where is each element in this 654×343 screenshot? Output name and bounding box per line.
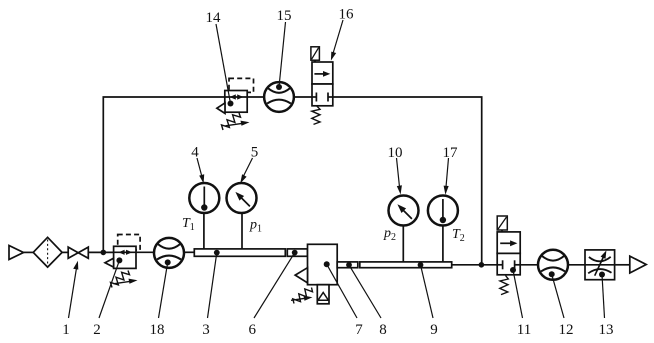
filter <box>33 237 62 267</box>
leader to 7 <box>327 264 357 318</box>
valve 16 actuator <box>311 47 320 60</box>
valve 11 open-position arrow <box>500 242 514 244</box>
valve 11 node dot <box>510 267 516 273</box>
wire (left riser) <box>103 97 225 252</box>
throttle valve 13 adjust arrow <box>595 257 604 276</box>
svg-text:17: 17 <box>443 145 459 161</box>
svg-text:8: 8 <box>379 322 387 338</box>
leader to 3 <box>208 253 217 318</box>
svg-text:T1: T1 <box>182 216 195 233</box>
wire <box>62 251 68 253</box>
svg-text:5: 5 <box>251 145 259 161</box>
regulator R14 flow arrows <box>225 96 247 98</box>
pipe section 9 <box>360 262 452 268</box>
valve 16 body <box>312 62 333 84</box>
flow meter 12 <box>538 250 568 280</box>
regulator R2 pilot dashed box <box>118 235 140 251</box>
valve 16 open-position arrow <box>314 73 327 75</box>
leader to 8 <box>349 265 381 318</box>
leader to 9 <box>421 265 434 318</box>
wire <box>24 251 34 253</box>
valve 11 actuator <box>497 216 507 230</box>
svg-text:p2: p2 <box>383 226 396 243</box>
svg-text:12: 12 <box>559 322 574 338</box>
regulator R2 spring <box>111 271 130 288</box>
valve 11 body <box>497 232 520 254</box>
regulator R2 flow arrows <box>114 251 136 253</box>
svg-text:16: 16 <box>339 7 355 23</box>
test valve 7 body <box>308 244 338 284</box>
test valve 7 spring <box>293 288 313 304</box>
throttle valve 13 through line <box>585 264 615 266</box>
leader to 15 <box>279 22 286 87</box>
pressure gauge 10 (p2) <box>389 196 419 226</box>
svg-text:6: 6 <box>249 322 257 338</box>
svg-text:11: 11 <box>517 322 531 338</box>
wire <box>136 251 154 253</box>
wire <box>184 251 194 253</box>
svg-text:15: 15 <box>277 8 292 24</box>
leader to 14 <box>216 24 231 104</box>
leader to 11 <box>513 270 523 318</box>
thermometer gauge 4 (T1) <box>189 183 219 213</box>
svg-text:9: 9 <box>430 322 438 338</box>
regulator R14 adjust arrow <box>226 123 243 125</box>
throttle valve 13 node dot <box>599 272 605 278</box>
throttle valve 13 body <box>585 250 615 280</box>
regulator R14 body <box>225 91 247 113</box>
svg-text:18: 18 <box>150 322 165 338</box>
leader to 13 <box>602 275 605 319</box>
flow meter 15 <box>264 82 294 112</box>
regulator R14 pilot dashed box <box>229 78 254 92</box>
air inlet source <box>9 246 24 260</box>
svg-text:10: 10 <box>388 145 403 161</box>
leader to 18 <box>159 262 168 318</box>
valve 16 spring <box>312 106 320 124</box>
gauge 10 stem <box>402 226 404 262</box>
wire <box>520 264 538 266</box>
junction node <box>479 262 485 268</box>
leader to 17 <box>446 158 449 187</box>
svg-text:1: 1 <box>62 322 70 338</box>
regulator R2 adjust arrow <box>114 281 131 283</box>
test valve 7 relief triangle <box>295 268 307 283</box>
leader to 1 <box>69 20 605 318</box>
regulator R2 body <box>114 246 136 268</box>
wire <box>294 96 312 98</box>
air outlet <box>630 256 646 273</box>
pipe section 3 <box>194 249 285 256</box>
leader to 6 <box>254 253 295 318</box>
flow meter 18 <box>154 238 184 268</box>
leader to 2 <box>99 260 119 318</box>
leader to 5 <box>243 158 253 177</box>
valve 16 closed ports <box>312 96 316 98</box>
wire <box>615 264 630 266</box>
gauge 5 stem <box>241 213 243 249</box>
gauge 17 stem <box>442 226 444 262</box>
svg-text:3: 3 <box>202 322 210 338</box>
regulator R2 relief triangle <box>105 258 114 267</box>
test valve 7 adjust arrow <box>291 298 305 300</box>
gauge 4 stem <box>203 213 205 249</box>
leader to 4 <box>197 158 202 177</box>
leader to 16 <box>333 20 343 54</box>
svg-text:p1: p1 <box>249 218 262 235</box>
shut-off valve 1 <box>68 247 78 258</box>
wire <box>88 251 113 253</box>
svg-text:13: 13 <box>599 322 614 338</box>
regulator R14 spring <box>222 113 241 130</box>
valve 11 closed ports <box>497 264 502 266</box>
svg-text:T2: T2 <box>452 227 465 244</box>
pressure gauge 5 (p1) <box>227 183 257 213</box>
svg-text:7: 7 <box>355 322 363 338</box>
svg-text:2: 2 <box>93 322 101 338</box>
pipe section 8 <box>337 262 358 268</box>
wire <box>247 96 264 98</box>
wire <box>568 264 585 266</box>
test valve 7 node dot <box>324 261 330 267</box>
valve 11 spring <box>500 276 509 295</box>
regulator R2 node dot <box>116 257 122 263</box>
regulator R14 relief triangle <box>217 103 225 114</box>
wire <box>452 264 498 266</box>
thermometer gauge 17 (T2) <box>428 196 458 226</box>
throttle valve 13 arcs <box>589 257 611 262</box>
regulator R14 node dot <box>228 101 234 107</box>
leader to 12 <box>552 274 564 318</box>
leader to 10 <box>397 158 400 187</box>
svg-text:14: 14 <box>206 10 222 26</box>
test valve 7 vent box <box>317 285 329 304</box>
junction node <box>101 250 107 256</box>
svg-text:4: 4 <box>191 145 199 161</box>
pipe section 6 <box>287 249 307 256</box>
wire (top run) <box>333 97 482 265</box>
